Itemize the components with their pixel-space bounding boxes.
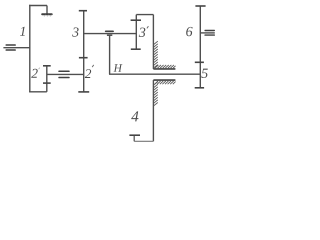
gear 6 / gear 5 mesh cap (195, 61, 204, 63)
ground hatching (44, 15, 52, 17)
shaft 3-3' (84, 33, 137, 35)
wire bottom-left horizontal (29, 91, 47, 93)
gear 4 stub (133, 135, 135, 141)
upper flange hatching (155, 65, 176, 68)
shaft 1 (input shaft) (3, 47, 29, 49)
gear 3' vertical line (135, 15, 137, 50)
lower flange hatching (155, 81, 176, 84)
lower flange bar (ring gear rim) (153, 79, 175, 81)
label 4 (131, 111, 138, 121)
label 5 (201, 69, 207, 78)
bearing on shaft 2-2' (lower pad) (59, 77, 69, 79)
gear 5 / gear 6 vertical line (199, 6, 201, 88)
label 3' (139, 28, 146, 37)
fixed wall lower vertical (152, 80, 154, 141)
gear 2' bottom cap (78, 91, 89, 93)
gear 6 top cap (195, 5, 205, 7)
bearing block above shaft 3-3' (106, 30, 113, 32)
carrier H vertical arm (109, 35, 111, 74)
gear 2' top cap (79, 57, 88, 59)
bearing on shaft 2-2' (upper pad) (59, 70, 69, 72)
bearing on shaft 1 (lower pad) (6, 49, 15, 51)
label 6 (186, 27, 192, 36)
gear 2 lower cap (43, 82, 51, 84)
lower wall hatching (154, 82, 158, 106)
fixed wall upper vertical (152, 15, 154, 69)
bearing on shaft 1 (upper pad) (6, 44, 15, 46)
gear 3' top cap (131, 19, 141, 21)
wire top bracket vertical drop (46, 6, 48, 14)
label H (114, 64, 123, 71)
bottom wire from wall to gear 4 stub (134, 140, 153, 142)
carrier H / shaft 5 long horizontal line (109, 73, 200, 75)
gear 4 cap (129, 134, 140, 136)
gear 3 top cap (79, 10, 87, 12)
label 1 (20, 27, 25, 36)
label 2 faint prime (39, 68, 40, 70)
ground (fixed support bar, top) (42, 13, 52, 15)
upper wall hatching (154, 41, 158, 68)
link 1 vertical line (left frame of gear 1 block) (29, 5, 31, 92)
gear 3 / gear 2' vertical line (83, 11, 85, 92)
bearing on shaft 6 (lower pad) (205, 34, 214, 36)
label 2 (31, 69, 38, 78)
carrier H pivot bar under shaft (107, 34, 112, 36)
gear 5 bottom cap (195, 87, 204, 89)
bearing on shaft 6 (upper pad) (205, 30, 214, 32)
wire top bracket horizontal from gear1 shaft line to fixed support (29, 5, 47, 7)
gear 2 vertical line (46, 66, 48, 92)
wire from gear 3' top to fixed wall (136, 14, 153, 16)
gear 2 top cap (43, 65, 51, 67)
label 2' (85, 69, 91, 78)
gear 3' bottom cap (131, 48, 141, 50)
shaft 2-2' (47, 73, 84, 75)
shaft 6 (output) (200, 32, 215, 34)
upper flange bar (ring gear 6 rim) (153, 68, 175, 70)
label 3 (72, 27, 78, 36)
